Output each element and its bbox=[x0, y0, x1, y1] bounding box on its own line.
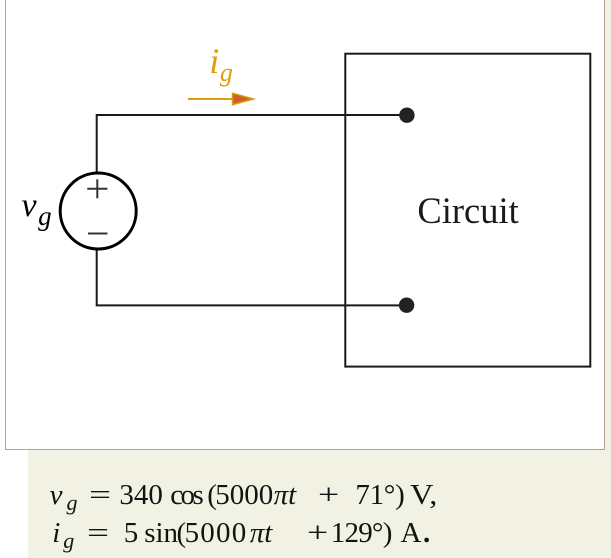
label ig bbox=[209, 43, 233, 86]
wire bottom: source to circuit bbox=[97, 249, 407, 305]
label Circuit bbox=[417, 193, 518, 230]
minus sign inside source bbox=[88, 233, 107, 235]
equation line 1: vg = 340 cos(5000 pi t + 71 deg) V, bbox=[50, 481, 78, 514]
equation line 2: ig = 5 sin(5000 pi t + 129 deg) A. bbox=[52, 519, 74, 552]
plus sign inside source bbox=[87, 179, 107, 198]
wire top: source to circuit bbox=[97, 115, 407, 173]
figure frame (white box with tan border) bbox=[5, 0, 605, 450]
node dot top terminal bbox=[399, 108, 414, 123]
node dot bottom terminal bbox=[399, 298, 414, 313]
voltage source vg circle bbox=[60, 173, 136, 249]
circuit block rectangle bbox=[345, 54, 590, 367]
label vg bbox=[22, 189, 52, 231]
current arrow ig bbox=[188, 98, 234, 100]
